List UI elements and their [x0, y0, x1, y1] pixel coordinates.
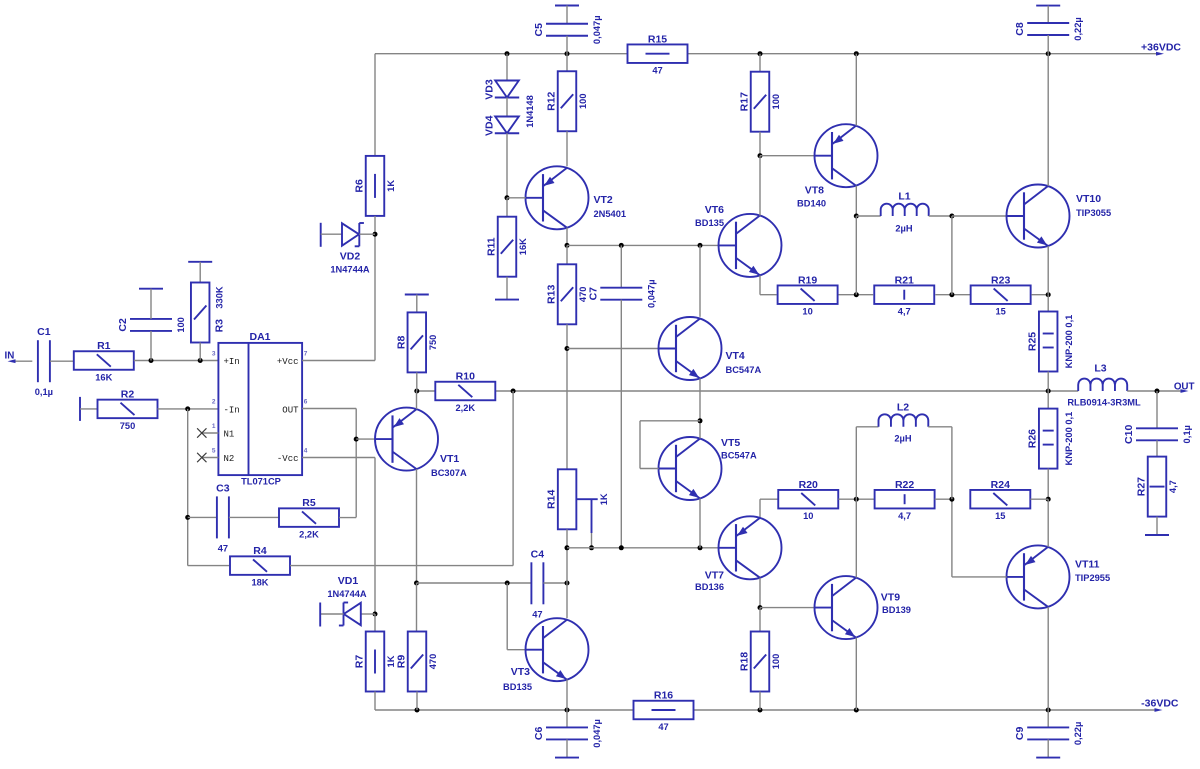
svg-text:BD135: BD135 — [503, 682, 532, 692]
svg-text:18K: 18K — [251, 578, 268, 588]
svg-text:VT10: VT10 — [1076, 193, 1101, 205]
svg-text:+In: +In — [224, 357, 240, 367]
svg-text:DA1: DA1 — [249, 331, 270, 343]
svg-text:BD140: BD140 — [797, 199, 826, 209]
svg-text:R10: R10 — [456, 371, 475, 383]
svg-text:C10: C10 — [1123, 425, 1135, 444]
svg-text:R7: R7 — [354, 655, 366, 669]
svg-text:+36VDC: +36VDC — [1141, 42, 1181, 54]
svg-text:C9: C9 — [1014, 727, 1026, 741]
svg-text:47: 47 — [652, 66, 662, 76]
svg-text:4,7: 4,7 — [898, 307, 911, 317]
svg-text:VT3: VT3 — [511, 666, 530, 678]
svg-text:470: 470 — [428, 654, 438, 670]
svg-text:1N4148: 1N4148 — [525, 95, 535, 128]
svg-text:BC307A: BC307A — [431, 468, 467, 478]
svg-text:1N4744A: 1N4744A — [330, 265, 370, 275]
svg-text:R8: R8 — [395, 336, 407, 350]
svg-text:R26: R26 — [1027, 429, 1039, 448]
svg-text:VT5: VT5 — [721, 437, 740, 449]
svg-text:4: 4 — [304, 448, 308, 455]
svg-text:-In: -In — [224, 405, 240, 415]
svg-text:2,2K: 2,2K — [455, 403, 475, 413]
svg-text:RLB0914-3R3ML: RLB0914-3R3ML — [1067, 398, 1141, 408]
svg-text:4,7: 4,7 — [1168, 480, 1178, 493]
svg-text:N1: N1 — [224, 430, 235, 440]
svg-text:1N4744A: 1N4744A — [327, 589, 367, 599]
svg-text:C8: C8 — [1014, 22, 1026, 36]
svg-text:OUT: OUT — [1174, 382, 1195, 393]
svg-text:OUT: OUT — [282, 405, 299, 415]
svg-text:2µH: 2µH — [895, 224, 913, 234]
svg-text:R1: R1 — [97, 340, 111, 352]
svg-text:0,22µ: 0,22µ — [1073, 722, 1083, 745]
svg-text:C2: C2 — [117, 318, 129, 332]
svg-text:VT7: VT7 — [705, 570, 724, 582]
svg-text:+Vcc: +Vcc — [277, 357, 299, 367]
svg-text:R2: R2 — [121, 389, 135, 401]
svg-text:IN: IN — [5, 351, 15, 362]
svg-text:10: 10 — [802, 307, 812, 317]
svg-text:C1: C1 — [37, 326, 51, 338]
svg-text:C6: C6 — [533, 727, 545, 741]
svg-text:100: 100 — [578, 93, 588, 109]
svg-text:R19: R19 — [798, 274, 817, 286]
svg-text:R4: R4 — [253, 545, 267, 557]
svg-text:R15: R15 — [648, 33, 667, 45]
svg-text:BC547A: BC547A — [726, 365, 762, 375]
svg-text:R27: R27 — [1136, 477, 1148, 496]
svg-text:BD139: BD139 — [882, 605, 911, 615]
svg-text:R22: R22 — [895, 479, 914, 491]
svg-text:VD4: VD4 — [483, 115, 495, 136]
svg-text:16K: 16K — [95, 373, 112, 383]
svg-text:0,1µ: 0,1µ — [1182, 425, 1192, 443]
svg-text:BD136: BD136 — [695, 582, 724, 592]
svg-text:BC547A: BC547A — [721, 451, 757, 461]
svg-text:VD3: VD3 — [483, 79, 495, 100]
svg-text:2: 2 — [212, 399, 216, 406]
svg-text:R24: R24 — [991, 479, 1010, 491]
svg-text:R20: R20 — [799, 479, 818, 491]
svg-text:-Vcc: -Vcc — [277, 454, 299, 464]
svg-text:4,7: 4,7 — [898, 511, 911, 521]
svg-text:100: 100 — [176, 317, 186, 333]
svg-text:15: 15 — [995, 307, 1005, 317]
svg-text:R14: R14 — [546, 490, 558, 509]
svg-text:BD135: BD135 — [695, 218, 724, 228]
svg-text:C7: C7 — [587, 287, 599, 301]
svg-text:R6: R6 — [354, 179, 366, 193]
svg-text:VT6: VT6 — [705, 204, 724, 216]
svg-text:1: 1 — [212, 423, 216, 430]
svg-text:R23: R23 — [991, 274, 1010, 286]
svg-text:5: 5 — [212, 448, 216, 455]
svg-text:750: 750 — [120, 421, 136, 431]
svg-text:R12: R12 — [546, 91, 558, 110]
svg-text:R3: R3 — [214, 319, 226, 333]
svg-text:VD2: VD2 — [340, 251, 361, 263]
svg-text:R17: R17 — [739, 92, 751, 111]
svg-text:47: 47 — [658, 722, 668, 732]
svg-text:0,1µ: 0,1µ — [35, 387, 53, 397]
svg-text:VT11: VT11 — [1075, 559, 1100, 571]
svg-text:R13: R13 — [546, 285, 558, 304]
svg-text:R25: R25 — [1027, 332, 1039, 351]
svg-text:VT1: VT1 — [440, 453, 459, 465]
svg-text:15: 15 — [995, 511, 1005, 521]
svg-text:100: 100 — [771, 94, 781, 110]
svg-text:L1: L1 — [898, 191, 910, 203]
svg-text:7: 7 — [304, 351, 308, 358]
svg-text:R18: R18 — [739, 652, 751, 671]
svg-text:1K: 1K — [386, 180, 396, 192]
svg-text:TIP3055: TIP3055 — [1076, 208, 1111, 218]
svg-text:VT8: VT8 — [805, 185, 824, 197]
svg-text:R21: R21 — [895, 274, 914, 286]
svg-text:VD1: VD1 — [338, 575, 359, 587]
svg-text:N2: N2 — [224, 454, 235, 464]
svg-text:VT2: VT2 — [594, 194, 613, 206]
svg-text:-36VDC: -36VDC — [1141, 697, 1179, 709]
svg-text:1K: 1K — [599, 493, 609, 505]
svg-text:0,047µ: 0,047µ — [592, 719, 602, 748]
svg-text:0,047µ: 0,047µ — [592, 15, 602, 44]
svg-text:0,047µ: 0,047µ — [646, 279, 656, 308]
svg-text:C4: C4 — [531, 548, 545, 560]
svg-text:C3: C3 — [216, 482, 230, 494]
svg-text:TIP2955: TIP2955 — [1075, 573, 1110, 583]
svg-text:0,22µ: 0,22µ — [1073, 17, 1083, 40]
svg-text:TL071CP: TL071CP — [241, 477, 281, 487]
svg-text:6: 6 — [304, 399, 308, 406]
svg-text:750: 750 — [428, 335, 438, 351]
svg-text:R9: R9 — [396, 655, 408, 669]
svg-text:VT9: VT9 — [881, 591, 900, 603]
svg-text:R16: R16 — [654, 690, 673, 702]
svg-text:2,2K: 2,2K — [299, 530, 319, 540]
svg-text:330K: 330K — [215, 286, 225, 309]
svg-text:R11: R11 — [486, 237, 498, 256]
svg-text:2µH: 2µH — [894, 434, 912, 444]
svg-text:KNP-200 0,1: KNP-200 0,1 — [1064, 315, 1074, 369]
svg-text:L3: L3 — [1094, 363, 1106, 375]
svg-text:16K: 16K — [518, 238, 528, 255]
svg-text:100: 100 — [771, 654, 781, 670]
svg-text:47: 47 — [218, 543, 228, 553]
svg-text:1K: 1K — [386, 655, 396, 667]
svg-text:2N5401: 2N5401 — [594, 209, 627, 219]
svg-text:3: 3 — [212, 351, 216, 358]
svg-text:KNP-200 0,1: KNP-200 0,1 — [1064, 412, 1074, 466]
svg-text:VT4: VT4 — [726, 350, 745, 362]
svg-text:C5: C5 — [533, 23, 545, 37]
svg-text:10: 10 — [803, 511, 813, 521]
svg-text:R5: R5 — [302, 497, 316, 509]
svg-text:L2: L2 — [897, 402, 909, 414]
svg-text:47: 47 — [532, 609, 542, 619]
